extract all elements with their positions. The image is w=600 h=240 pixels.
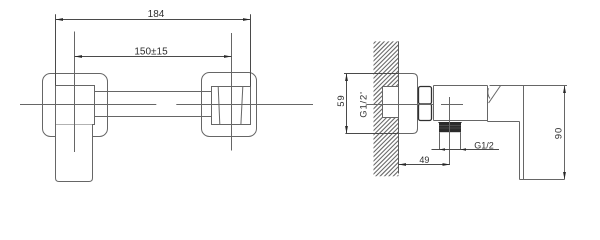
svg-text:49: 49: [419, 155, 429, 165]
svg-text:150±15: 150±15: [134, 47, 168, 58]
svg-text:59: 59: [336, 95, 347, 107]
svg-text:G1/2': G1/2': [359, 91, 370, 117]
svg-text:G1/2: G1/2: [474, 140, 494, 150]
svg-text:184: 184: [148, 9, 165, 20]
svg-text:90: 90: [553, 127, 564, 140]
